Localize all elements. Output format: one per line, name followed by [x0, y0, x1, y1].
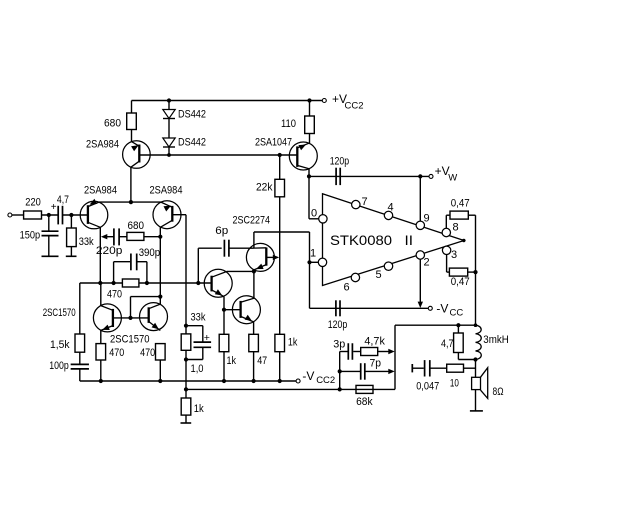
svg-text:6: 6 [344, 282, 350, 294]
node 33k bottom junction [184, 357, 188, 361]
svg-text:680: 680 [128, 220, 145, 232]
wire collector-base loop [131, 297, 161, 318]
node 4,7 branch junction [456, 323, 460, 327]
node 68k junction [338, 387, 342, 391]
svg-text:2SA984: 2SA984 [86, 139, 119, 151]
svg-text:390p: 390p [139, 247, 161, 259]
wire +Vw rail [309, 175, 429, 177]
svg-text:0,47: 0,47 [451, 197, 470, 209]
transistor Q8 2SC2274 (VAS) [233, 215, 275, 272]
resistor 10 [447, 364, 464, 389]
node rail1 j4 [252, 379, 256, 383]
svg-text:6p: 6p [215, 225, 228, 237]
svg-text:120p: 120p [328, 319, 348, 331]
svg-text:5: 5 [376, 269, 382, 281]
svg-text:33k: 33k [79, 236, 94, 248]
svg-text:2SC1570: 2SC1570 [43, 307, 76, 319]
terminal +Vcc2 [322, 92, 363, 112]
wire -Vcc rail [310, 307, 429, 309]
node 22k-top junction [278, 153, 282, 157]
speaker 8 ohm [472, 368, 504, 399]
resistor 110 [281, 101, 314, 144]
transistor Q2 2SA984 (diff pair left) [80, 185, 117, 229]
pin 0 [311, 208, 327, 224]
wire Q7 emitter down [253, 322, 255, 334]
svg-text:CC2: CC2 [316, 375, 335, 386]
wire pin2 lead with arrow [418, 259, 423, 308]
transistor Q6 (driver) [204, 269, 232, 297]
svg-text:47: 47 [257, 355, 267, 367]
wire emitter rail [99, 201, 161, 203]
wire 680 bottom lead [131, 130, 133, 142]
wire feedback right column [394, 325, 396, 389]
svg-text:470: 470 [107, 289, 122, 301]
pin 9 [416, 213, 430, 230]
svg-text:0: 0 [311, 208, 317, 220]
svg-text:STK0080: STK0080 [330, 232, 392, 248]
resistor 470 (left emitter) [96, 330, 124, 381]
node 7p junction [338, 369, 342, 373]
resistor 4,7k [361, 335, 395, 355]
capacitor 1,0 electrolytic [186, 326, 211, 375]
wire Q3 collector [159, 227, 161, 236]
resistor 680 (feedback) [127, 220, 144, 240]
pin 8 [442, 222, 459, 237]
resistor 1k (to ground) [181, 389, 205, 423]
svg-text:2SC1570: 2SC1570 [110, 334, 150, 346]
svg-text:10: 10 [450, 378, 459, 390]
node diode-top junction [167, 98, 171, 102]
node 0,47 junction [473, 270, 477, 274]
wire Q7 collector up [253, 271, 255, 298]
terminal +Vw [429, 164, 457, 183]
svg-text:120p: 120p [330, 156, 350, 168]
svg-text:W: W [448, 173, 457, 184]
svg-text:2: 2 [424, 257, 430, 269]
capacitor 120p (bottom) [328, 300, 348, 331]
node emitter rail junction [129, 200, 133, 204]
svg-text:470: 470 [140, 347, 155, 359]
wire pin9 lead [419, 176, 421, 221]
capacitor 120p (top) [330, 156, 350, 186]
svg-text:DS442: DS442 [178, 137, 206, 149]
svg-text:470: 470 [109, 347, 124, 359]
node loop top junction [158, 295, 162, 299]
svg-text:8: 8 [453, 222, 459, 234]
pin 6 [344, 273, 360, 293]
svg-text:4: 4 [388, 202, 394, 214]
wire Q3 base lead [172, 215, 186, 326]
resistor 4,7 (zobel) [441, 325, 476, 359]
terminal input [8, 213, 24, 217]
wire Q6 collector [227, 270, 254, 272]
svg-text:33k: 33k [191, 312, 206, 324]
svg-text:2SC2274: 2SC2274 [233, 215, 271, 227]
wire diode bottom lead [168, 147, 170, 155]
capacitor 390p [114, 247, 161, 283]
svg-text:680: 680 [104, 118, 121, 130]
node Q7 base junction [222, 308, 226, 312]
resistor 470 (on rail) [107, 279, 139, 301]
svg-text:7p: 7p [370, 358, 382, 370]
pin 2 [416, 251, 430, 269]
wire speaker column [475, 360, 477, 378]
svg-text:8Ω: 8Ω [493, 386, 504, 398]
svg-text:-V: -V [436, 302, 448, 316]
svg-text:1,5k: 1,5k [50, 339, 70, 351]
node Q2-collector rail junction [98, 281, 102, 285]
svg-text:1k: 1k [227, 355, 237, 367]
svg-text:4,7: 4,7 [57, 194, 69, 206]
resistor 47 (cascode emitter) [249, 334, 267, 381]
resistor 1k (driver emitter) [219, 334, 236, 381]
wire feedback rail [186, 388, 395, 390]
wire 680 top lead [131, 101, 133, 114]
node rail1 j2 [158, 379, 162, 383]
wire 33k node to rail2 [185, 360, 187, 390]
node rail1 j5 [278, 379, 282, 383]
resistor 0,47 (bottom) [447, 255, 476, 289]
svg-text:4,7k: 4,7k [364, 335, 385, 347]
resistor 220 [24, 196, 42, 219]
svg-text:+: + [204, 332, 210, 344]
svg-text:3: 3 [451, 249, 457, 261]
svg-text:0,47: 0,47 [451, 276, 470, 288]
node input/150p junction [47, 213, 51, 217]
wire Q5 collector up [159, 297, 161, 305]
svg-text:150p: 150p [20, 230, 40, 242]
transistor Q1 2SA984 (top current source) [86, 139, 150, 169]
wire Q8 collector up [254, 232, 310, 248]
node pin1 junction [307, 260, 311, 264]
resistor 1,5k [50, 283, 85, 352]
wire Q6 emitter to Q7 base [223, 297, 225, 335]
diode DS442 (upper) [163, 101, 206, 121]
wire +Vcc2 rail [132, 100, 323, 102]
svg-text:220p: 220p [96, 245, 123, 257]
svg-text:100p: 100p [49, 360, 69, 372]
terminal -Vcc [428, 302, 463, 319]
svg-text:1: 1 [310, 248, 316, 260]
pin 4 [384, 202, 393, 220]
wire pin0 lead [309, 176, 319, 218]
svg-text:9: 9 [424, 213, 430, 225]
node rail1 j3 [222, 379, 226, 383]
node 110-top junction [307, 98, 311, 102]
pin 5 [376, 262, 393, 281]
svg-text:+: + [51, 202, 57, 213]
wire diode link [168, 119, 170, 139]
svg-text:7: 7 [362, 196, 368, 208]
wire Vbe rail y283 [80, 282, 212, 284]
svg-text:110: 110 [281, 118, 296, 130]
svg-text:3mkH: 3mkH [483, 334, 509, 346]
wire Q4 collector up [100, 283, 102, 306]
node 390p right junction [145, 281, 149, 285]
inductor 3mkH [476, 325, 509, 359]
capacitor 0,047 [412, 360, 446, 392]
wire output link [395, 324, 476, 326]
wire Q1 collector lead [130, 167, 132, 202]
svg-text:1k: 1k [288, 337, 298, 349]
node rail2 left junction [184, 387, 188, 391]
wire output column [475, 215, 477, 325]
svg-text:CC: CC [450, 308, 464, 319]
wire pin1 net [310, 232, 319, 308]
resistor 68k [356, 385, 373, 408]
node inductor top junction [474, 323, 478, 327]
node pin9 junction [418, 174, 422, 178]
wire Q9 collector down [308, 169, 310, 177]
wire Q2 collector [99, 227, 101, 283]
resistor 0,47 (top) [446, 197, 475, 228]
pin 3 [442, 246, 457, 261]
resistor 470 (right emitter) [140, 344, 165, 381]
svg-text:DS442: DS442 [178, 109, 206, 121]
wire 680 to Q3 collector [144, 236, 160, 238]
node 33k-top junction [69, 213, 73, 217]
svg-text:1k: 1k [194, 403, 204, 415]
pin 1 [310, 248, 327, 267]
svg-text:2SA984: 2SA984 [84, 185, 117, 197]
node driver junction [252, 269, 256, 273]
wire 680 node down [159, 237, 161, 297]
transistor Q5 2SC1570 (right) [110, 303, 168, 346]
capacitor 6p [198, 225, 254, 283]
capacitor 3p [333, 339, 360, 360]
svg-text:68k: 68k [356, 396, 373, 408]
diode DS442 (lower) [163, 137, 206, 149]
node loop base junction [128, 316, 132, 320]
capacitor 4,7 electrolytic (input) [51, 194, 69, 225]
wire Q4 base link [113, 317, 149, 319]
svg-text:4,7: 4,7 [441, 338, 454, 350]
node 390p left junction [112, 281, 116, 285]
svg-text:3p: 3p [333, 339, 345, 351]
svg-text:2SA1047: 2SA1047 [255, 137, 292, 149]
wire 220p join arrow [101, 234, 107, 239]
wire Q8 emitter with arrow [266, 255, 279, 260]
transistor Q4 2SC1570 (left) [43, 304, 122, 332]
node Q3 collector junction [158, 235, 162, 239]
svg-text:II: II [405, 232, 414, 248]
svg-text:1,0: 1,0 [191, 363, 204, 375]
wire base rail y155 [139, 154, 297, 156]
svg-text:0,047: 0,047 [416, 380, 439, 392]
wire input node [42, 214, 59, 216]
wire -Vcc2 rail [80, 380, 296, 382]
resistor 33k (input) [66, 215, 94, 256]
transistor Q9 2SA1047 [255, 137, 317, 171]
pin 7 [352, 196, 368, 209]
node 33k top junction [184, 324, 188, 328]
wire 10 to speaker column [464, 367, 476, 369]
node Q9/pin0 junction [307, 174, 311, 178]
capacitor 150p [20, 215, 59, 256]
svg-text:220: 220 [25, 196, 41, 208]
resistor 33k (bias) [181, 312, 206, 360]
node rail1 j1 [99, 379, 103, 383]
ground (speaker) [470, 390, 483, 411]
wire 4,7 to base [63, 214, 88, 216]
capacitor 100p [49, 352, 89, 381]
svg-text:22k: 22k [256, 182, 273, 194]
capacitor 220p [96, 228, 127, 257]
wire 1k to rail1 [279, 352, 281, 381]
transistor Q7 (cascode) [232, 296, 260, 324]
wire Q7 base lead [224, 309, 241, 311]
resistor 680 (top left) [104, 113, 136, 130]
svg-text:2SA984: 2SA984 [150, 185, 183, 197]
svg-text:-V: -V [302, 369, 314, 383]
node Tmid base junction [196, 281, 200, 285]
capacitor 7p [340, 358, 395, 380]
wire Q8 base stub [253, 270, 255, 272]
op-amp U1 STK0080 II [323, 194, 466, 286]
terminal -Vcc2 [296, 369, 335, 386]
resistor 1k (VAS emitter) [275, 334, 298, 351]
resistor 22k [256, 155, 285, 334]
node inductor bottom junction [473, 357, 477, 361]
svg-text:CC2: CC2 [345, 101, 364, 112]
transistor Q3 2SA984 (diff pair right) [150, 185, 183, 229]
node diode-bottom junction [167, 153, 171, 157]
wire feedback left column [339, 352, 341, 390]
